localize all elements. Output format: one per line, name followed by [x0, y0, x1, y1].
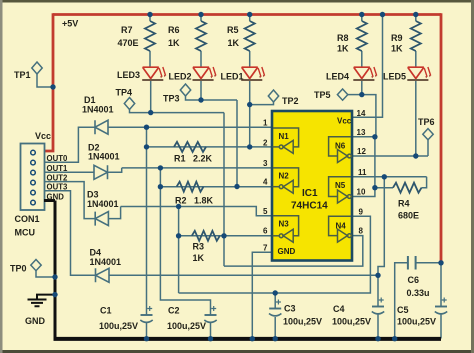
wire R6 to LED2: [200, 51, 202, 67]
svg-text:LED5: LED5: [383, 72, 406, 82]
svg-text:C3: C3: [284, 304, 296, 314]
wire LED3 cathode: [150, 80, 152, 113]
svg-text:R3: R3: [193, 242, 205, 252]
svg-text:C2: C2: [168, 306, 180, 316]
wire R4 left: [375, 187, 393, 189]
wire x178.6 drop pin5 to R3 to 293 rail: [178, 207, 180, 294]
node pin12/LED5: [413, 153, 418, 158]
capacitor C6: [408, 256, 416, 270]
wire OUT3 down to D4: [44, 191, 96, 276]
gnd black wiring: [28, 201, 442, 339]
wire R7 to LED3: [149, 51, 151, 67]
wire TP4 drop: [130, 109, 151, 113]
diode D1: [95, 120, 108, 134]
resistor R9: [411, 21, 421, 51]
test point TP4: [124, 98, 134, 110]
svg-text:N2: N2: [279, 172, 290, 181]
svg-text:1N4001: 1N4001: [87, 199, 119, 209]
svg-text:R8: R8: [337, 33, 349, 43]
svg-text:TP6: TP6: [418, 117, 435, 127]
svg-text:N5: N5: [335, 181, 346, 190]
op-amp/inverter N6: [329, 137, 352, 163]
wire R8 top stub: [361, 15, 363, 22]
svg-text:TP5: TP5: [314, 90, 331, 100]
wire R2 row to pin4: [160, 186, 272, 188]
LED3: [142, 67, 165, 80]
svg-text:100u,25V: 100u,25V: [397, 317, 436, 327]
test point diamonds: [31, 62, 433, 271]
wire C1 bottom: [146, 323, 148, 339]
wire pin13 to x375: [352, 136, 375, 138]
resistor R6: [196, 21, 206, 51]
capacitor C2: [204, 306, 216, 322]
resistor R7: [145, 21, 155, 51]
wire R6 top stub: [200, 15, 202, 22]
wire +5V right leg (red): [440, 13, 443, 263]
svg-text:LED3: LED3: [117, 70, 140, 80]
wire D4 row to C4 junction: [109, 274, 378, 276]
diode D3: [95, 212, 108, 226]
test point TP5: [337, 89, 347, 100]
svg-text:R5: R5: [227, 25, 239, 35]
resistor R3: [192, 231, 220, 241]
wire C2 bottom: [210, 323, 212, 339]
svg-text:5: 5: [263, 207, 268, 216]
LED1: [241, 67, 264, 80]
wire LED4 cathode: [361, 80, 363, 95]
LED5: [407, 67, 430, 80]
svg-text:TP0: TP0: [10, 264, 27, 274]
node bus C3: [273, 336, 278, 341]
wire R3 row pin6: [179, 235, 272, 237]
wire OUT2 to D3: [44, 182, 95, 219]
svg-text:N4: N4: [336, 222, 347, 231]
svg-text:7: 7: [263, 244, 268, 253]
svg-text:GND: GND: [278, 247, 296, 256]
svg-text:680E: 680E: [398, 211, 419, 221]
svg-text:Vcc: Vcc: [35, 131, 51, 141]
wire LED4 net over to x375.9: [362, 95, 376, 137]
resistor R8: [357, 21, 367, 51]
diodes (1N4001): [94, 120, 109, 282]
svg-text:1: 1: [263, 119, 268, 128]
wire R8 to LED4: [361, 51, 363, 67]
svg-text:2: 2: [263, 139, 268, 148]
node TP5/LED4: [359, 92, 364, 97]
wire +5V rail top (red): [53, 13, 441, 16]
wire TP0 to gnd line: [36, 271, 55, 278]
svg-text:Vcc: Vcc: [337, 117, 352, 126]
svg-text:C6: C6: [408, 275, 420, 285]
svg-text:TP3: TP3: [163, 94, 180, 104]
svg-text:1K: 1K: [228, 38, 240, 48]
node TP2/LED1: [247, 102, 252, 107]
svg-text:D4: D4: [90, 248, 102, 258]
wire TP6 drop: [427, 140, 429, 156]
wire pin3 row: [122, 167, 272, 169]
resistor R1: [174, 142, 206, 152]
svg-text:R7: R7: [121, 25, 133, 35]
svg-text:MCU: MCU: [15, 228, 36, 238]
svg-text:0.33u: 0.33u: [407, 288, 430, 298]
diode D4: [96, 268, 110, 282]
resistor R5: [245, 21, 255, 51]
svg-text:1.8K: 1.8K: [194, 196, 214, 206]
svg-text:1N4001: 1N4001: [88, 152, 120, 162]
svg-text:1N4001: 1N4001: [82, 105, 114, 115]
wire C3 bottom: [274, 317, 276, 339]
wire pin11 row: [352, 176, 427, 178]
svg-text:C4: C4: [333, 304, 345, 314]
svg-text:1K: 1K: [337, 44, 349, 54]
node TP3/LED2: [198, 97, 203, 102]
svg-text:12: 12: [357, 147, 366, 156]
wire vertical x224 (to R3/pin6 and pin8 loop): [223, 113, 225, 267]
capacitor C3: [269, 300, 281, 316]
wire pin9 down and 293 rail: [179, 216, 371, 293]
node bus C6: [392, 336, 397, 341]
LED2: [193, 67, 216, 80]
node R3 right pin6: [221, 233, 226, 238]
node TP0: [52, 274, 57, 279]
svg-text:R4: R4: [398, 199, 410, 209]
wire gnd vertical: [54, 201, 57, 339]
resistor R2: [177, 182, 204, 192]
node bus C4: [375, 336, 380, 341]
svg-text:100u,25V: 100u,25V: [167, 321, 206, 331]
svg-text:100u,25V: 100u,25V: [283, 317, 322, 327]
svg-text:R9: R9: [391, 33, 403, 43]
wire D1/R1/C1 vertical x146.5: [146, 127, 148, 315]
svg-text:100u,25V: 100u,25V: [99, 321, 138, 331]
svg-text:N6: N6: [335, 142, 346, 151]
wire C5 top stem: [440, 263, 442, 307]
wire pin3 stub down to R2: [159, 168, 161, 187]
svg-text:R1: R1: [174, 154, 186, 164]
svg-text:14: 14: [357, 109, 366, 118]
svg-text:C5: C5: [397, 305, 409, 315]
node rail Vcc drop: [380, 12, 385, 17]
svg-text:13: 13: [357, 128, 366, 137]
node rail R9: [413, 12, 418, 17]
node C6/+5V: [438, 260, 443, 265]
svg-text:LED4: LED4: [326, 72, 349, 82]
svg-text:R6: R6: [168, 25, 180, 35]
node rail R8: [359, 12, 364, 17]
node R2 left: [158, 184, 163, 189]
node pin5 row: [176, 204, 181, 209]
frame border: [0, 0, 474, 3]
svg-text:TP1: TP1: [14, 70, 31, 80]
node rail R7: [147, 12, 152, 17]
test point TP0: [31, 260, 41, 271]
LEDs: [142, 67, 431, 80]
node bus C1: [144, 336, 149, 341]
svg-text:1K: 1K: [391, 44, 403, 54]
wire C5 bottom: [440, 315, 442, 339]
capacitor C1: [140, 306, 152, 322]
test point TP6: [423, 129, 433, 140]
ground symbol: [28, 295, 56, 307]
wire pin11 drop to C4 junction: [378, 177, 384, 275]
wire pin14 to rail: [352, 15, 383, 118]
wire OUT1 to D2: [44, 171, 94, 173]
svg-text:GND: GND: [25, 316, 46, 326]
svg-text:TP4: TP4: [116, 88, 133, 98]
node pin3 stub: [158, 165, 163, 170]
svg-text:6: 6: [263, 227, 268, 236]
node D4/C4: [375, 273, 380, 278]
wire R9 top stub: [415, 15, 417, 22]
wire R1 row: [147, 146, 273, 148]
wire LED1 cathode: [249, 80, 251, 147]
op-amp/inverter N4: [329, 216, 352, 242]
wire pin7 to gnd bus: [252, 252, 272, 338]
wire x375 pin13 to pin10 junction: [374, 137, 376, 188]
wire LED3 net to x224: [151, 112, 224, 114]
svg-text:8: 8: [359, 227, 364, 236]
node pin2 row: [247, 144, 252, 149]
node bus pin7: [250, 336, 255, 341]
wire TP1 to +5V leg: [37, 73, 53, 87]
svg-text:11: 11: [358, 168, 367, 177]
svg-text:74HC14: 74HC14: [291, 201, 328, 212]
svg-text:OUT1: OUT1: [47, 164, 68, 173]
svg-text:+5V: +5V: [62, 19, 78, 29]
wire pin8 wrap under IC to x224: [224, 236, 363, 267]
wire TP5 to LED4: [348, 94, 362, 96]
op-amp/inverter N3: [273, 216, 299, 243]
gnd bus bottom: [54, 337, 442, 341]
node rail R6: [198, 12, 203, 17]
svg-text:2.2K: 2.2K: [193, 154, 213, 164]
svg-text:1K: 1K: [193, 253, 205, 263]
wire C3 stub: [274, 293, 276, 309]
wire vertical x237 to pin4 row: [236, 100, 238, 187]
wire C6 left to gnd bus: [395, 263, 407, 339]
svg-text:N3: N3: [279, 220, 290, 229]
svg-text:D1: D1: [84, 95, 96, 105]
node TP1: [50, 84, 55, 89]
capacitor C5: [435, 298, 447, 314]
wire R5 to LED1: [249, 51, 251, 67]
test point TP1: [32, 62, 42, 74]
svg-text:D3: D3: [87, 190, 99, 200]
node bus C2: [208, 336, 213, 341]
svg-text:9: 9: [359, 208, 364, 217]
node TP4/LED3: [148, 110, 153, 115]
wire D2 jog to pin3 row: [108, 168, 122, 172]
wire C4 bottom: [377, 315, 379, 339]
svg-text:R2: R2: [175, 196, 187, 206]
node pin4 row: [234, 184, 239, 189]
node R1 left: [144, 144, 149, 149]
op-amp/inverter N1: [273, 128, 299, 153]
svg-text:1N4001: 1N4001: [90, 257, 122, 267]
wire R5 top stub: [249, 15, 251, 22]
node D1 junction: [144, 125, 149, 130]
node R3 left: [176, 233, 181, 238]
wire C4 stub: [377, 275, 379, 306]
wire +5V left leg (red): [44, 13, 53, 151]
wire TP2 drop: [250, 102, 274, 105]
node rail R5: [247, 12, 252, 17]
svg-text:100u,25V: 100u,25V: [332, 317, 371, 327]
resistor R4: [393, 183, 422, 193]
wire D1 to junction and pin1: [108, 126, 272, 128]
node pin13: [372, 134, 377, 139]
svg-text:LED1: LED1: [221, 72, 244, 82]
wire LED5 cathode to pin12 row: [415, 80, 417, 156]
wire OUT0 to D1: [44, 127, 95, 162]
wire R4 right up to pin11 row: [422, 177, 427, 188]
svg-text:OUT0: OUT0: [47, 154, 68, 163]
test point TP2: [268, 90, 278, 102]
op-amp/inverter N5: [329, 177, 352, 203]
op-amp/inverter N2: [273, 168, 299, 193]
wire LED2 net to x237: [201, 99, 237, 101]
LED4: [353, 67, 376, 80]
diode D2: [94, 165, 108, 179]
wire LED2 cathode: [200, 80, 202, 100]
connector CON1: [21, 144, 45, 211]
test point TP3: [180, 84, 190, 96]
svg-text:TP2: TP2: [282, 96, 299, 106]
svg-text:470E: 470E: [118, 38, 139, 48]
svg-text:N1: N1: [279, 132, 290, 141]
node pin11: [382, 174, 387, 179]
wire pin10 L-route: [352, 188, 375, 197]
svg-text:1K: 1K: [168, 38, 180, 48]
svg-text:C1: C1: [100, 306, 112, 316]
svg-text:GND: GND: [47, 193, 65, 202]
node C3 top: [273, 290, 278, 295]
svg-text:OUT2: OUT2: [47, 174, 68, 183]
node pin10/R4: [372, 185, 377, 190]
svg-text:IC1: IC1: [302, 188, 318, 199]
IC1 74HC14 body: [272, 111, 352, 261]
svg-text:CON1: CON1: [15, 214, 40, 224]
wire R9 to LED5: [415, 51, 417, 67]
wire R2 left to C2 route: [160, 187, 210, 315]
svg-text:10: 10: [357, 188, 366, 197]
svg-text:LED2: LED2: [169, 72, 192, 82]
svg-text:4: 4: [263, 178, 268, 187]
wire D3 right jog up to pin5 row: [108, 207, 120, 219]
wire TP3 drop: [186, 95, 202, 100]
capacitor C4: [372, 298, 384, 314]
wire connector GND pin to vertical: [44, 199, 55, 202]
wire pin12 row: [352, 155, 428, 157]
svg-text:3: 3: [263, 159, 268, 168]
wire R7 top stub: [149, 15, 151, 22]
wire pin5 row with jog into IC: [121, 207, 272, 216]
svg-text:OUT3: OUT3: [47, 183, 68, 192]
node gnd symbol: [52, 292, 57, 297]
wire C6 right to +5V corner: [417, 262, 442, 264]
